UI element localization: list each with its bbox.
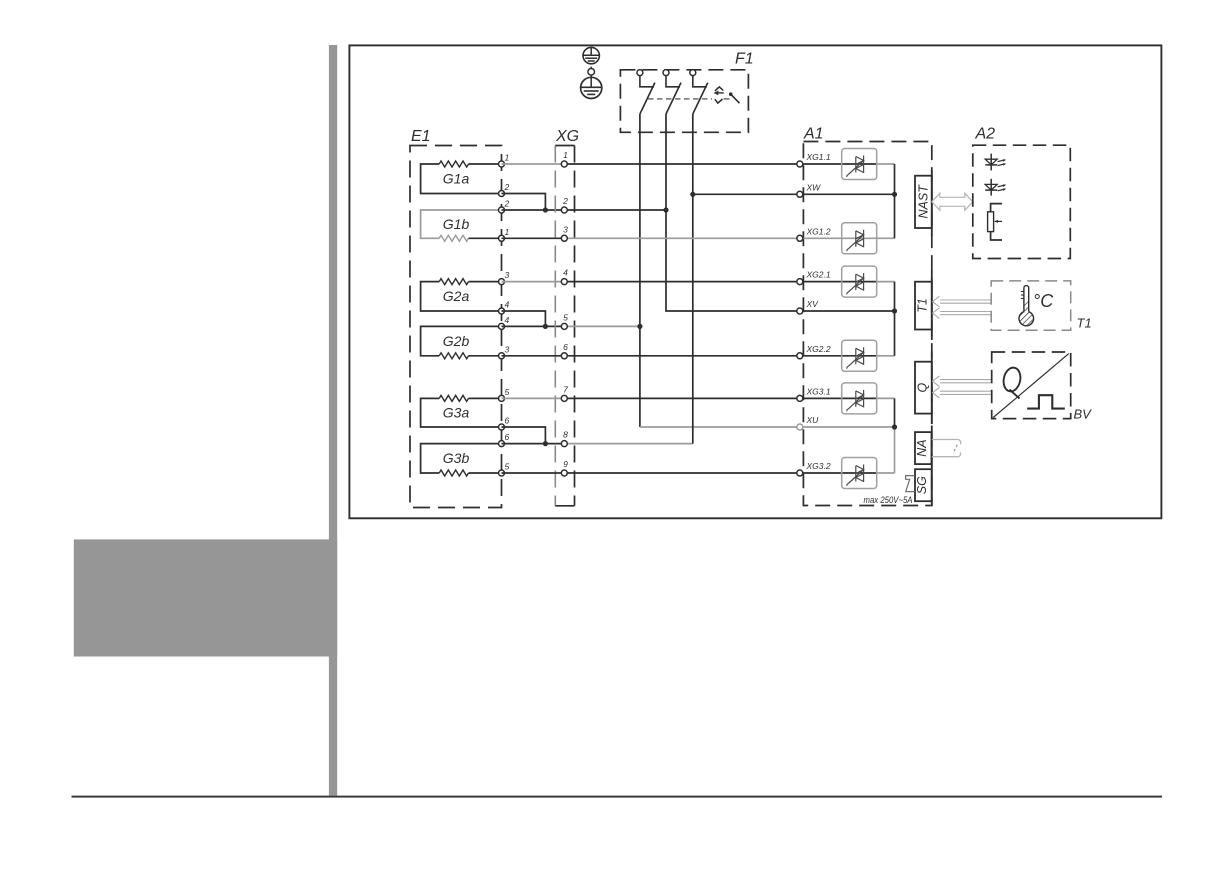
indicator module A2 dashed box and label [973,126,1071,259]
XG pin 2 [561,196,568,213]
svg-text:6: 6 [505,416,510,426]
wire net: XG8 / F1 pole3 / A1 XW [564,114,800,444]
F1 operating handle [729,92,740,103]
svg-text:XG2.2: XG2.2 [806,344,831,354]
A1 terminal XG3.1 [797,386,831,401]
svg-text:4: 4 [505,315,510,325]
F1 pole 3: terminal, contact and blade [690,70,708,114]
svg-text:2: 2 [504,182,510,192]
connector T1 (on A1) [915,282,932,330]
LED HL1 in A2 [985,154,1006,171]
wire XG3 row: E1 terminal to XG to A1 [502,237,800,239]
svg-text:BV: BV [1074,407,1093,422]
ribbon double arrow NAST to A2 [932,193,973,210]
wire net: XG5 / F1 pole1 / A1 XU [564,114,800,427]
svg-text:XW: XW [806,182,822,192]
protective earth symbol (small, top) [583,47,599,63]
A1 internal wiring: triacs 1-2 to XW node [800,164,897,238]
XG pin 5 [561,312,568,329]
SG flag symbol [906,476,915,492]
svg-text:T1: T1 [916,298,930,313]
svg-text:XG3.2: XG3.2 [806,461,831,471]
svg-text:7: 7 [563,384,568,394]
circuit breaker F1 dashed box and label [620,51,753,133]
optotriac V4 [842,340,877,371]
svg-text:NA: NA [915,439,929,456]
svg-text:F1: F1 [735,51,754,68]
F1 thermal release symbol [715,87,724,103]
connector XG dashed box and label [555,128,579,506]
heater G3a [421,387,510,430]
arrows from sensor T1 into connector [933,296,992,318]
heater G1b [421,199,510,242]
svg-text:4: 4 [563,268,568,278]
A1 terminal XG1.1 [797,152,831,167]
wire XG7 row: E1 terminal to XG to A1 [502,397,800,399]
svg-text:1: 1 [563,150,568,160]
svg-text:XG1.1: XG1.1 [806,152,831,162]
LED HL2 in A2 [985,179,1006,196]
A1 terminal XG2.1 [797,270,831,285]
svg-text:2: 2 [562,196,568,206]
BV symbol Q [1001,366,1022,398]
svg-text:NAST: NAST [917,184,931,219]
svg-text:3: 3 [505,270,510,280]
temperature sensor T1 dashed box and label [991,281,1091,331]
svg-text:3: 3 [563,224,568,234]
svg-text:T1: T1 [1077,316,1092,331]
svg-text:G3a: G3a [443,405,470,421]
svg-text:E1: E1 [411,128,431,145]
thermometer icon [1019,286,1034,326]
controller module A1 dashed box and label [803,126,932,506]
svg-text:A1: A1 [803,126,824,143]
A1 terminal XW [797,182,821,197]
connector Q (on A1) [915,362,932,414]
optotriac V5 [842,383,877,414]
svg-text:1: 1 [505,153,510,163]
heater block E1 dashed box and label [410,128,502,508]
svg-text:XV: XV [806,299,820,309]
svg-text:G2b: G2b [443,333,470,349]
XG pin 1 [561,150,568,167]
potentiometer in A2 [988,204,1002,240]
protective earth symbol (large) with terminal circle [581,67,602,99]
svg-text:9: 9 [563,459,568,469]
svg-text:A2: A2 [975,126,996,143]
svg-text:5: 5 [505,462,510,472]
A1 terminal XU [797,415,819,430]
BV diagonal divider [993,354,1069,418]
A1 terminal XV [797,299,819,314]
svg-text:5: 5 [563,312,568,322]
wire: heater pair common to XG pin (with junction) [502,194,565,213]
svg-text:XG2.1: XG2.1 [806,270,831,280]
connector NAST [915,176,932,228]
wire XG9 row: E1 terminal to XG to A1 [502,472,800,474]
svg-text:2: 2 [504,199,510,209]
A1 terminal XG2.2 [797,344,831,359]
svg-text:6: 6 [563,342,568,352]
svg-text:XG1.2: XG1.2 [806,226,831,236]
optotriac V1 [842,149,877,180]
svg-text:G3b: G3b [443,450,470,466]
svg-text:1: 1 [505,227,510,237]
wire XG6 row: E1 terminal to XG to A1 [502,355,800,357]
optotriac V2 [842,223,877,254]
svg-text:6: 6 [505,432,510,442]
connector NA [915,432,932,464]
XG pin 8 [561,430,568,447]
svg-text:max 250V~5A: max 250V~5A [864,495,913,506]
F1 trip linkage (dashed) [648,98,730,100]
wire XG4 row: E1 terminal to XG to A1 [502,281,800,283]
optotriac V3 [842,266,877,297]
connector SG [915,469,932,501]
heater G1a [421,153,510,197]
wire net: XG2 / F1 pole2 / A1 XV [564,114,800,311]
F1 pole 2: terminal, contact and blade [663,70,681,114]
XG pin 9 [561,459,568,476]
svg-text:XG: XG [555,128,579,145]
arrows from sensor BV into connector Q [933,376,992,398]
svg-text:°C: °C [1033,291,1054,311]
svg-text:8: 8 [563,430,568,440]
wire: heater pair common to XG pin (with junction) [502,427,565,446]
svg-text:XU: XU [806,415,820,425]
XG pin 3 [561,224,568,241]
svg-text:G1b: G1b [443,216,470,232]
svg-text:G2a: G2a [443,288,470,304]
svg-text:Q: Q [916,382,930,392]
svg-text:G1a: G1a [443,171,470,187]
svg-text:4: 4 [505,300,510,310]
F1 pole 1: terminal, contact and blade [637,70,655,114]
wire: heater pair common to XG pin (with junction) [502,311,565,329]
sensor BV dashed box and label [992,352,1092,422]
svg-text:SG: SG [915,476,929,494]
svg-text:XG3.1: XG3.1 [806,386,831,396]
rating label max 250V~5A [864,495,913,506]
wire XG1 row: E1 terminal to XG to A1 [502,163,800,165]
svg-text:5: 5 [505,387,510,397]
label °C [1033,291,1054,311]
XG pin 6 [561,342,568,359]
BV pulse waveform symbol [1027,395,1065,408]
NA cable stub [932,440,961,457]
XG pin 7 [561,384,568,401]
optotriac V6 [842,458,877,489]
heater G2a [421,270,510,314]
heater G2b [421,315,510,359]
svg-text:3: 3 [505,344,510,354]
A1 terminal XG3.2 [797,461,831,476]
A1 terminal XG1.2 [797,226,831,241]
XG pin 4 [561,268,568,285]
A1 internal wiring: triacs 5-6 to XU node [800,398,897,473]
A1 internal wiring: triacs 3-4 to XV node [800,282,897,356]
heater G3b [421,432,510,476]
